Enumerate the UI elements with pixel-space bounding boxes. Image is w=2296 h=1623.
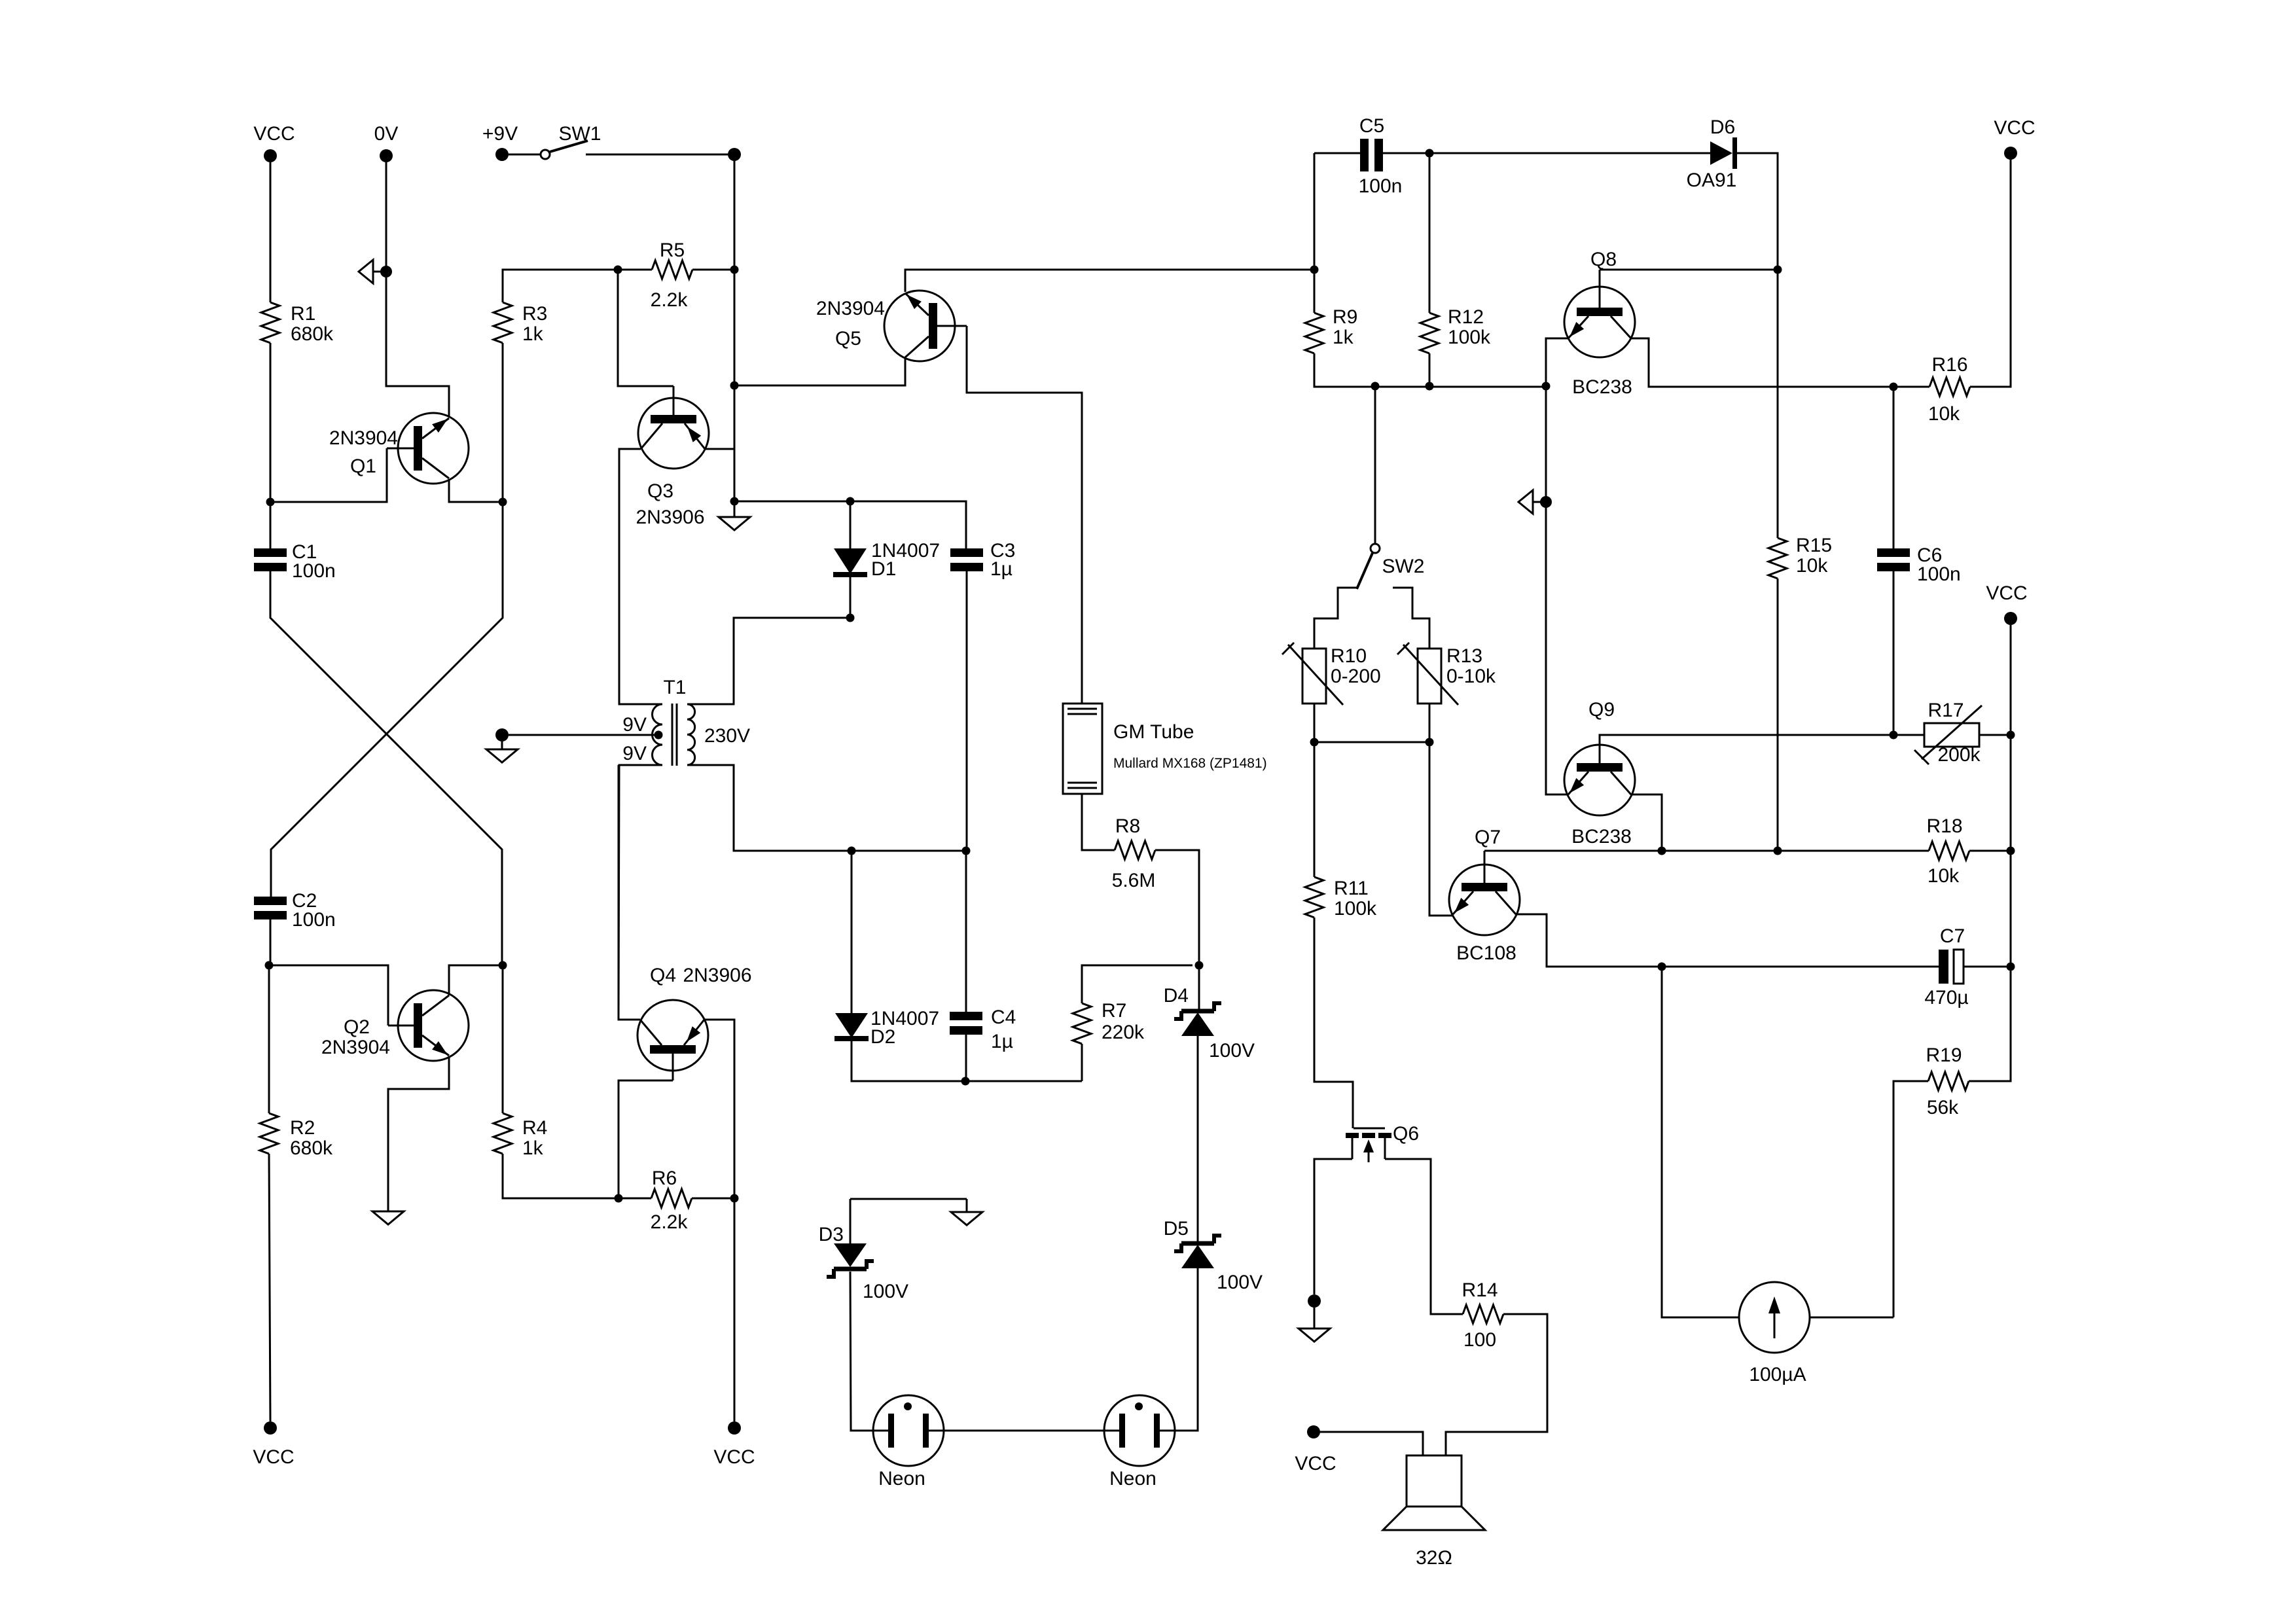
wire Q9 collector (1631, 794, 1662, 851)
svg-text:D2: D2 (870, 1026, 895, 1048)
resistor R6 (651, 1189, 692, 1207)
wire 0V to Q1 collector (386, 277, 449, 417)
svg-text:T1: T1 (663, 677, 686, 698)
wire 0V down (386, 162, 387, 272)
node T1 center tap (655, 731, 663, 740)
wire Q8 collector (1631, 338, 1893, 387)
wire GM tube bottom (1082, 794, 1115, 850)
wire SW2 feed (1374, 386, 1376, 544)
resistor R9 (1305, 313, 1323, 353)
variable resistor R17 (1924, 723, 1979, 747)
svg-text:100µA: 100µA (1749, 1364, 1806, 1385)
svg-text:R17: R17 (1928, 700, 1964, 721)
wire VCC mid column (2010, 625, 2012, 1081)
svg-text:R2: R2 (290, 1117, 315, 1139)
diode D6 OA91 (1710, 141, 1732, 165)
wire R16 right lead (1970, 160, 2011, 387)
svg-text:VCC: VCC (713, 1446, 755, 1468)
wire Q7 base rail (1484, 850, 1929, 852)
node C7 right (2007, 963, 2015, 971)
svg-text:R4: R4 (522, 1117, 547, 1139)
wire D2 cathode (852, 1041, 1082, 1081)
svg-text:R8: R8 (1115, 815, 1140, 837)
node VCC speaker (1307, 1425, 1320, 1438)
transformer T1 core (672, 704, 677, 766)
transistor Q2 2N3904 (398, 990, 469, 1061)
wire SW2 throw right (1393, 588, 1429, 649)
node SW2 top (1371, 382, 1380, 391)
svg-text:2.2k: 2.2k (651, 1211, 689, 1233)
svg-text:10k: 10k (1796, 555, 1828, 577)
wire Q1 base (270, 448, 387, 502)
wire SW1 to top node (586, 154, 728, 156)
node Q5-Q3 emitter rail (730, 382, 739, 390)
svg-text:C5: C5 (1359, 115, 1384, 137)
node ground port Q6 (1308, 1294, 1321, 1308)
svg-text:Q4: Q4 (650, 965, 676, 986)
capacitor C6 (1877, 548, 1910, 557)
wire R15 bottom lead (1777, 579, 1779, 851)
meter 100uA (1739, 1282, 1810, 1353)
wire C2node to R2 (268, 965, 270, 1113)
svg-text:D5: D5 (1164, 1218, 1189, 1240)
wire T1 secondary bottom (687, 765, 966, 851)
node R3-Q1 (499, 498, 507, 507)
wire Q2 emitter (388, 1057, 449, 1211)
svg-text:D6: D6 (1710, 116, 1735, 138)
wire T1 primary bottom (619, 765, 662, 1020)
wire R12 top lead (1429, 153, 1431, 313)
wire D6 left lead (1429, 152, 1710, 154)
variable resistor R13 (1418, 649, 1441, 704)
svg-text:D1: D1 (871, 558, 896, 580)
resistor R11 (1305, 877, 1323, 918)
wire R6 left lead (619, 1198, 651, 1200)
svg-text:R5: R5 (660, 240, 685, 261)
wire R5 left lead (618, 269, 652, 271)
diode D2 1N4007 (835, 1013, 868, 1038)
svg-text:100k: 100k (1334, 898, 1377, 919)
svg-text:C4: C4 (991, 1007, 1016, 1028)
wire Q8 base (1600, 269, 1778, 271)
svg-text:OA91: OA91 (1687, 169, 1737, 191)
resistor R5 (652, 260, 692, 279)
resistor R2 (260, 1113, 278, 1154)
svg-text:R6: R6 (652, 1168, 677, 1189)
svg-text:1µ: 1µ (991, 1031, 1013, 1052)
node R13 bottom (1426, 738, 1434, 747)
wire Q6 drain to ground (1314, 1159, 1352, 1294)
svg-text:Q7: Q7 (1475, 827, 1501, 848)
wire Q2 base (269, 965, 388, 1026)
node VCC bottom-left (264, 1421, 277, 1435)
wire meter right (1810, 1317, 1893, 1319)
node R10 bottom (1310, 738, 1319, 747)
wire R13 bottom (1429, 704, 1431, 742)
resistor R3 (493, 302, 512, 343)
svg-text:R16: R16 (1931, 354, 1967, 376)
svg-text:Q5: Q5 (835, 328, 861, 349)
svg-text:R10: R10 (1331, 645, 1367, 667)
resistor R1 (261, 302, 279, 343)
svg-text:100n: 100n (1917, 563, 1961, 585)
transistor Q9 BC238 (1564, 745, 1635, 815)
wire C2 bottom (270, 919, 272, 965)
node Q8 base-R15 (1774, 266, 1782, 274)
wire R7 top (1082, 965, 1193, 1003)
wire R15 top lead (1777, 270, 1779, 538)
resistor R15 (1768, 538, 1787, 579)
svg-text:5.6M: 5.6M (1112, 870, 1156, 891)
node R8-D4 (1195, 961, 1204, 970)
svg-text:SW1: SW1 (558, 123, 601, 145)
wire D1 cathode (850, 577, 852, 618)
svg-text:R7: R7 (1102, 1000, 1126, 1022)
resistor R14 (1463, 1305, 1503, 1323)
ground on D3 rail (951, 1212, 982, 1225)
ground left of T1 (486, 749, 518, 762)
svg-text:VCC: VCC (1295, 1453, 1336, 1474)
svg-text:Q3: Q3 (647, 480, 673, 502)
svg-text:VCC: VCC (253, 1446, 294, 1468)
wire D3 rail (850, 1198, 967, 1200)
wire R4 bottom (503, 1154, 619, 1198)
svg-text:100n: 100n (292, 560, 336, 582)
capacitor C1 (254, 548, 287, 557)
wire R2 to VCC (269, 1154, 270, 1421)
wire Q5 base to GM tube (967, 326, 1082, 704)
svg-text:10k: 10k (1928, 865, 1960, 887)
wire Q4 collector (619, 765, 640, 1020)
svg-text:1µ: 1µ (990, 558, 1013, 580)
node VCC top-right (2004, 147, 2017, 160)
transistor Q7 BC108 (1449, 865, 1520, 935)
wire rail down to Q3 (734, 270, 736, 501)
wire R3 top (503, 270, 618, 302)
wire C4 top (965, 851, 967, 1012)
capacitor C4 (950, 1012, 982, 1020)
svg-text:0V: 0V (374, 123, 399, 145)
svg-text:56k: 56k (1927, 1097, 1959, 1118)
variable resistor R10 (1302, 649, 1326, 704)
transistor Q3 2N3906 (638, 398, 709, 469)
svg-text:100V: 100V (1209, 1040, 1255, 1061)
node R1-C1-Q1base (266, 498, 275, 507)
wire R19 right lead (1969, 967, 2011, 1081)
resistor R4 (493, 1113, 512, 1154)
wire R9 bottom lead (1314, 353, 1546, 387)
wire cross diagonal (271, 502, 503, 897)
wire Q2 collector (449, 965, 503, 995)
svg-text:100V: 100V (1217, 1272, 1263, 1293)
svg-text:BC108: BC108 (1456, 942, 1516, 964)
wire gnd stem Q6 (1314, 1308, 1316, 1329)
switch SW2 (1371, 544, 1380, 553)
wire R5 right lead (692, 269, 734, 271)
svg-text:100: 100 (1463, 1329, 1496, 1351)
resistor R7 (1073, 1003, 1091, 1044)
wire C6 bottom (1893, 571, 1895, 735)
wire R11 to Q6 gate (1314, 918, 1353, 1128)
net marker mid (1518, 490, 1533, 514)
svg-text:BC238: BC238 (1572, 376, 1632, 398)
node R9 top (1310, 266, 1319, 274)
wire C5 right lead (1383, 152, 1429, 154)
node R5 left (614, 266, 622, 274)
wire C1 bottom diagonal (270, 571, 502, 965)
wire R1 to node C1 (270, 343, 272, 502)
svg-text:R3: R3 (522, 303, 547, 325)
svg-text:R1: R1 (291, 303, 315, 325)
node R6 left (615, 1194, 623, 1203)
svg-text:R18: R18 (1926, 815, 1962, 837)
wire R17 left lead (1893, 734, 1924, 736)
wire R10 bottom (1314, 704, 1316, 742)
svg-text:Neon: Neon (878, 1468, 925, 1489)
transformer T1 secondary winding (687, 704, 695, 765)
svg-text:R9: R9 (1333, 306, 1357, 328)
wire C6 top (1893, 387, 1895, 548)
svg-text:2N3904: 2N3904 (321, 1037, 390, 1058)
node R12 bottom (1426, 382, 1434, 391)
wire R16 left lead (1893, 386, 1929, 388)
resistor R18 (1929, 842, 1969, 860)
wire pot rail (1314, 741, 1429, 743)
wire R6 right lead (692, 1198, 734, 1200)
wire D3 anode (850, 1199, 852, 1243)
wire VCC to R1 (270, 162, 272, 302)
wire C7 left lead (1662, 966, 1939, 968)
wire VCC to speaker (1320, 1432, 1423, 1455)
node C3-C4 (962, 847, 971, 855)
wire Q7 collector (1516, 914, 1662, 967)
svg-text:C7: C7 (1940, 925, 1965, 947)
svg-text:2N3906: 2N3906 (636, 507, 704, 528)
svg-text:680k: 680k (290, 1137, 333, 1159)
wire R8 right (1155, 850, 1199, 965)
diode D5 zener 100V (1181, 1241, 1214, 1246)
wire D3 to neon (850, 1272, 873, 1431)
svg-text:2N3904: 2N3904 (329, 427, 398, 449)
node R16 left-C6 (1890, 383, 1898, 391)
wire R3 bottom (502, 343, 504, 502)
wire Q3 emitter (705, 448, 734, 450)
wire R7 bottom (1081, 1044, 1083, 1081)
node C5-R12-D6 (1426, 149, 1434, 158)
wire gnd stem D3rail (966, 1199, 968, 1212)
svg-text:R12: R12 (1448, 306, 1484, 328)
svg-text:D3: D3 (819, 1224, 844, 1245)
svg-text:Q2: Q2 (344, 1016, 370, 1038)
wire R6right to VCC (734, 1198, 736, 1421)
svg-text:Q6: Q6 (1393, 1123, 1419, 1145)
wire gnd stem T1 (501, 741, 503, 749)
diode D4 zener 100V (1181, 1009, 1214, 1014)
wire R19 left lead (1893, 1081, 1928, 1317)
node D1 cathode (846, 614, 855, 622)
diode D3 zener 100V (834, 1243, 867, 1267)
node +9V (495, 148, 509, 161)
svg-text:100V: 100V (863, 1281, 908, 1302)
node D2 anode (848, 847, 856, 855)
ground below Q2 (372, 1211, 404, 1224)
svg-text:10k: 10k (1928, 403, 1960, 425)
neon lamp left (873, 1395, 944, 1466)
svg-text:Neon: Neon (1109, 1468, 1157, 1489)
wire R14 to speaker (1446, 1314, 1547, 1455)
svg-text:220k: 220k (1102, 1022, 1145, 1043)
wire T1 primary top (619, 449, 662, 704)
wire C4 bottom (965, 1035, 967, 1081)
svg-text:9V: 9V (622, 714, 647, 736)
wire center tap to ground (509, 734, 658, 736)
svg-text:R13: R13 (1446, 645, 1482, 667)
wire gnd stem (734, 505, 736, 517)
node R18 right (2007, 847, 2015, 855)
neon lamp right (1104, 1395, 1175, 1466)
wire Q4 base (619, 1080, 673, 1198)
capacitor C5 (1360, 139, 1369, 171)
svg-text:2N3904: 2N3904 (816, 298, 885, 319)
svg-text:Mullard MX168 (ZP1481): Mullard MX168 (ZP1481) (1113, 756, 1267, 771)
wire Q5 emitter to rail (734, 357, 905, 385)
capacitor C7 470u (1939, 950, 1948, 984)
svg-text:0-200: 0-200 (1331, 666, 1381, 687)
wire +9V to SW1 (509, 154, 541, 156)
wire C7 right lead (1964, 966, 2011, 968)
svg-text:Q8: Q8 (1590, 249, 1617, 270)
svg-text:100n: 100n (1359, 175, 1403, 197)
wire D2 anode (851, 851, 853, 1013)
svg-text:2.2k: 2.2k (651, 289, 689, 311)
resistor R12 (1420, 313, 1439, 353)
node R15 bottom (1774, 847, 1782, 855)
node R17 right (2007, 731, 2015, 740)
wire R13 to Q7 emitter (1429, 742, 1453, 916)
node meter tap (1658, 963, 1666, 971)
wire gnd rail to C3 (734, 501, 966, 548)
wire R9 top lead (1314, 270, 1316, 313)
node ground port T1 (495, 728, 509, 741)
node D1 top (846, 497, 855, 506)
svg-text:Q9: Q9 (1588, 699, 1615, 721)
node C2-Q2 base (265, 961, 274, 970)
wire Q9 base (1600, 735, 1924, 763)
svg-text:200k: 200k (1937, 744, 1981, 766)
svg-text:2N3906: 2N3906 (683, 965, 751, 986)
resistor R8 (1115, 841, 1155, 859)
svg-text:BC238: BC238 (1571, 826, 1632, 847)
svg-text:32Ω: 32Ω (1416, 1547, 1452, 1569)
wire Q6 source (1385, 1159, 1463, 1314)
wire R12 bottom lead (1429, 353, 1431, 387)
node C4 bottom (961, 1077, 970, 1086)
switch SW1 (541, 150, 550, 159)
wire SW2 throw left (1314, 588, 1357, 649)
svg-text:230V: 230V (704, 725, 750, 747)
capacitor C3 (950, 548, 983, 557)
wire C5 left riser (1314, 153, 1316, 270)
wire D1 anode (850, 501, 852, 548)
svg-text:R15: R15 (1796, 535, 1832, 556)
svg-text:R19: R19 (1926, 1044, 1962, 1066)
svg-text:R11: R11 (1334, 878, 1369, 899)
svg-text:+9V: +9V (482, 123, 518, 145)
wire Q8 emitter (1546, 338, 1568, 387)
wire T1 secondary top (687, 618, 850, 704)
svg-text:470µ: 470µ (1924, 987, 1968, 1008)
wire R4 top (502, 965, 504, 1113)
wire R18 right lead (1969, 850, 2011, 852)
ground below Q6 (1299, 1329, 1330, 1342)
ground below Q3 (719, 517, 750, 530)
wire C3 bottom (966, 571, 968, 851)
wire Q3 base (618, 270, 673, 386)
wire C5 left lead (1314, 152, 1360, 154)
transistor Q5 2N3904 (884, 291, 955, 361)
node VCC bottom-mid-left (728, 1421, 741, 1435)
wire C1 top (270, 502, 272, 548)
transistor Q8 BC238 (1564, 287, 1635, 357)
transistor Q4 2N3906 (637, 1000, 708, 1071)
svg-text:VCC: VCC (1994, 117, 2035, 139)
svg-text:VCC: VCC (1986, 582, 2027, 604)
transformer T1 primary winding (653, 704, 663, 765)
wire top node down (734, 161, 736, 270)
node R5 right (730, 266, 739, 274)
transistor Q1 2N3904 (398, 413, 469, 484)
speaker 32ohm (1407, 1455, 1462, 1507)
svg-text:9V: 9V (622, 743, 647, 764)
capacitor C2 (254, 897, 287, 905)
wire Q9 emitter (1546, 387, 1568, 794)
wire D4-D5 (1197, 1036, 1199, 1243)
svg-text:680k: 680k (291, 323, 334, 345)
svg-text:1k: 1k (1333, 327, 1354, 348)
node VCC top-left (264, 149, 277, 162)
transistor Q6 MOSFET (1354, 1128, 1385, 1130)
wire Q1 emitter (449, 480, 503, 502)
wire R17 right lead (1979, 734, 2011, 736)
resistor R16 (1929, 378, 1970, 396)
node R6 right (730, 1194, 739, 1203)
GM tube (1063, 704, 1102, 794)
node 0V (380, 149, 393, 162)
wire D6 right lead (1737, 153, 1778, 270)
net marker 0V (359, 260, 373, 283)
node C6-R17 (1890, 731, 1898, 740)
svg-text:R14: R14 (1462, 1279, 1498, 1301)
svg-text:Q1: Q1 (350, 455, 376, 477)
wire meter left (1662, 967, 1739, 1317)
node VCC mid-right (2004, 612, 2017, 625)
diode D1 1N4007 (834, 548, 867, 574)
node ground tap (730, 497, 739, 506)
svg-text:0-10k: 0-10k (1446, 666, 1496, 687)
wire between neons (944, 1430, 1104, 1432)
svg-text:100n: 100n (292, 909, 336, 931)
node Q9 collector (1658, 847, 1666, 855)
svg-text:1k: 1k (522, 1137, 544, 1159)
wire R10 to R11 (1314, 742, 1316, 877)
node SW1 output (728, 148, 741, 161)
svg-text:D4: D4 (1164, 985, 1189, 1007)
wire Q5 collector (905, 270, 1314, 292)
svg-text:GM Tube: GM Tube (1113, 721, 1194, 743)
wire D5 to neon (1175, 1268, 1198, 1431)
svg-text:SW2: SW2 (1382, 556, 1424, 577)
svg-text:1k: 1k (522, 323, 544, 345)
